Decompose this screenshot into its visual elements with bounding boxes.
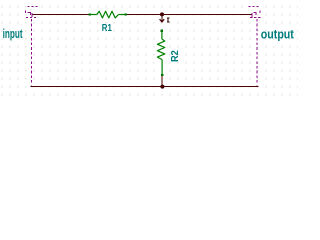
label I: [167, 18, 170, 23]
node junction bottom (R2 bottom): [160, 85, 164, 89]
svg-text:input: input: [3, 27, 23, 41]
current arrow I shaft: [161, 15, 163, 22]
port output: [249, 7, 261, 86]
top edge dashes: [249, 6, 251, 8]
dashed line down to bottom wire: [256, 19, 258, 86]
resistor R2: [157, 32, 164, 75]
svg-text:R1: R1: [102, 22, 112, 33]
corner dash: [253, 12, 256, 14]
pin dash: [251, 13, 253, 17]
dashed line down to bottom wire: [31, 19, 33, 86]
node junction top (R2 top): [160, 12, 164, 16]
wire R2 bottom stub: [161, 76, 163, 87]
wire top left: input pin to R1: [32, 14, 90, 16]
resistor R1: [91, 11, 125, 18]
right edge dash: [259, 10, 261, 13]
bottom edge dashes: [26, 16, 28, 18]
left edge dash: [25, 10, 27, 13]
top edge dashes: [28, 6, 30, 8]
port input: [26, 7, 38, 86]
svg-text:output: output: [261, 28, 294, 42]
pin dash: [31, 13, 33, 17]
bottom edge dashes: [250, 16, 252, 18]
svg-text:R2: R2: [169, 50, 181, 62]
wire top right: R1 to output pin: [126, 14, 252, 16]
wire bottom: [30, 86, 258, 88]
current arrow I head: [160, 19, 165, 22]
corner dash: [28, 12, 31, 14]
